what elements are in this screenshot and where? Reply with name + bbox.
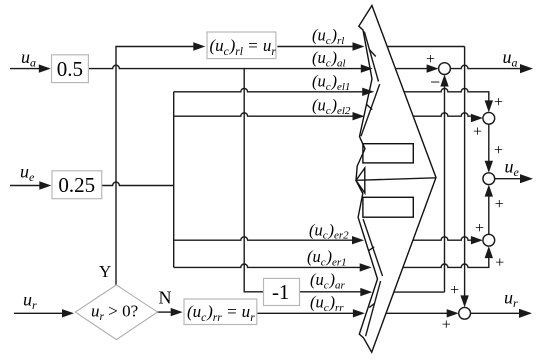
summing junction S1 (ua) — [439, 63, 451, 75]
control surface strip rl/al inner edge — [364, 32, 378, 82]
svg-text:−: − — [430, 72, 440, 92]
arrowhead ur output — [519, 309, 532, 318]
svg-text:(uc)rl = ur: (uc)rl = ur — [210, 36, 277, 58]
svg-text:-1: -1 — [272, 280, 290, 304]
arrowhead rl into wing — [353, 42, 365, 50]
wire er2 right with hops into S4 — [413, 237, 472, 240]
arrowhead ur input — [62, 309, 74, 317]
arrowhead S4 up into S3 — [485, 185, 493, 197]
decision diamond ur>0? — [75, 285, 157, 340]
summing junction S3 (ue) — [483, 173, 495, 185]
divider el1/el2 — [366, 104, 372, 109]
arrowhead v1 up into S1 — [440, 75, 448, 87]
wire diamond N to rr box — [158, 311, 172, 313]
assignment block (uc)rl = ur — [207, 32, 276, 59]
arrowhead el2 into S2 — [471, 114, 483, 122]
divider er2/er1 — [369, 247, 374, 251]
assignment block (uc)rr = ur — [184, 299, 257, 325]
wire -1 output (ar) — [300, 291, 362, 293]
wire trunk1 vertical — [173, 92, 175, 268]
wire Y-trunk vertical — [116, 47, 194, 285]
gain block 0.25 — [52, 171, 102, 199]
wire 0.25 output to trunk1 with hop over Y-trunk — [102, 182, 174, 185]
wire ua input — [10, 68, 41, 70]
wire v2 vertical rl down to ur sum — [464, 47, 466, 299]
arrowhead er2 into S4 — [471, 236, 483, 244]
wire rr box output — [257, 312, 353, 314]
svg-text:+: + — [442, 317, 451, 334]
wire al right into S1 — [395, 68, 428, 70]
arrowhead el1 into wing — [362, 88, 374, 96]
svg-text:+: + — [475, 220, 484, 237]
svg-text:+: + — [473, 124, 482, 141]
arrowhead ue output — [520, 174, 533, 183]
summing junction S4 (er) — [483, 234, 495, 246]
arrowhead ar into wing — [360, 288, 372, 296]
divider rl/al — [369, 50, 376, 57]
svg-text:Y: Y — [99, 262, 111, 281]
svg-text:+: + — [494, 94, 503, 111]
arrowhead into rl box — [193, 42, 205, 50]
control surface strip er2/er1 inner edge — [363, 219, 382, 276]
wire rr right into S5 — [386, 312, 448, 314]
svg-text:N: N — [159, 288, 172, 308]
svg-text:ur > 0?: ur > 0? — [91, 301, 138, 323]
wire S4 to S3 — [488, 194, 490, 234]
summing junction S2 (el) — [483, 112, 495, 124]
aircraft silhouette (flying wing plant) — [356, 6, 436, 353]
wire trunk2 vertical to -1 block — [244, 69, 263, 292]
arrowhead el2 into wing — [353, 112, 365, 120]
divider ar/rr — [369, 303, 375, 307]
arrowhead into rr box — [171, 308, 183, 316]
arrowhead er1 into wing — [360, 263, 372, 271]
arrowhead ua input — [39, 64, 51, 72]
arrowhead el1 down into S2 — [485, 100, 493, 112]
wire rl box output — [277, 46, 353, 48]
svg-text:+: + — [494, 142, 503, 159]
arrowhead er2 into wing — [352, 236, 364, 244]
wire el1 left with hop over trunk2 — [174, 88, 363, 91]
arrowhead er1 up into S4 — [485, 246, 493, 258]
arrowhead ua output — [520, 64, 533, 73]
svg-text:+: + — [495, 196, 504, 213]
svg-text:+: + — [495, 255, 504, 272]
wire el2 right with hops into S2 — [413, 113, 472, 116]
svg-text:0.25: 0.25 — [58, 173, 95, 197]
wire S5 output ur — [471, 312, 522, 314]
wire v1 vertical ar up to S1 minus — [444, 84, 446, 292]
svg-text:(uc)rr = ur: (uc)rr = ur — [187, 302, 255, 324]
arrowhead al into S1 — [427, 64, 439, 72]
wire ar right to v1 — [394, 291, 445, 293]
wire el1 right with hops over v1 v2 — [404, 88, 489, 103]
arrowhead rr into S5 — [447, 309, 459, 317]
arrowhead v2 down into S5 — [460, 295, 468, 307]
wire er2 left with hop over trunk2 — [174, 237, 353, 240]
engine box upper — [363, 144, 413, 163]
svg-text:+: + — [450, 282, 459, 299]
arrowhead ue input — [39, 181, 51, 189]
engine box lower — [363, 197, 413, 217]
control surface strip ar/rr inner edge — [366, 281, 381, 336]
wire S3 output ue — [495, 178, 522, 180]
gain block 0.5 — [52, 55, 89, 83]
svg-text:0.5: 0.5 — [57, 57, 83, 81]
svg-text:+: + — [426, 51, 435, 68]
wire ue input — [10, 185, 42, 187]
wire er1 left with hop over trunk2 — [174, 264, 360, 267]
wire 0.5 output (al) with hops over Y-trunk — [88, 65, 361, 68]
wire er1 right with hops up to S4 — [403, 256, 489, 267]
wire ur input — [14, 312, 64, 314]
control surface strip el1/el2 inner edge — [361, 84, 380, 136]
wire S2 to S3 — [488, 124, 490, 163]
wire rl right side to v2 — [387, 46, 464, 48]
wire el2 left with hop over trunk2 — [174, 113, 353, 116]
arrowhead rr into wing — [353, 309, 365, 317]
arrowhead S2 down into S3 — [485, 161, 493, 173]
wire S1 output ua with hop over v2 — [450, 65, 522, 68]
gain block -1 — [264, 278, 300, 305]
tail beak diamond — [356, 168, 365, 193]
arrowhead al into wing — [361, 64, 373, 72]
summing junction S5 (ur) — [459, 307, 471, 319]
center line fuselage axis — [356, 178, 436, 181]
